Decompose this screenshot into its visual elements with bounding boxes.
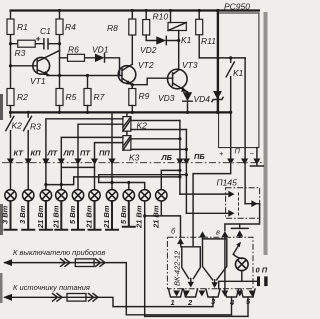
svg-text:R5: R5 (66, 92, 77, 102)
svg-text:ПП: ПП (99, 149, 110, 158)
wire K3 right lower to PB (131, 148, 187, 150)
svg-text:R3: R3 (15, 48, 26, 58)
pin b arrow (177, 238, 184, 244)
VK box dash-dot (167, 237, 253, 288)
scan edge artifacts left (0, 94, 3, 120)
svg-text:ЛП: ЛП (63, 149, 75, 158)
svg-text:−: − (250, 149, 255, 158)
svg-text:21 Вт: 21 Вт (36, 205, 45, 229)
mid bus wire (11, 111, 231, 113)
resistor R11 (198, 11, 200, 20)
lamps 1-10 (5, 190, 167, 201)
P145 link dashed (238, 193, 240, 216)
node R3 junction (9, 42, 12, 45)
wire R3-C1 chain (11, 43, 44, 45)
diode VD3 (187, 92, 189, 93)
scan edge artifacts right (264, 12, 268, 255)
lamp power labels (1, 205, 161, 229)
wire K3 left lower to PT column (95, 143, 123, 190)
svg-text:+: + (219, 149, 224, 158)
svg-text:21 Вт: 21 Вт (85, 205, 94, 229)
svg-text:5 Вт: 5 Вт (119, 205, 128, 224)
svg-text:П: П (235, 147, 241, 156)
node R8 top (131, 9, 134, 12)
pilot lamp (236, 258, 249, 271)
diode VD1 (95, 54, 105, 62)
wire PP column (111, 112, 113, 189)
svg-text:R8: R8 (107, 23, 118, 33)
svg-text:КП: КП (31, 149, 42, 158)
wire K3 left to LP column (61, 137, 123, 189)
wire output rail y58 (199, 57, 245, 59)
svg-text:ВК-422-12: ВК-422-12 (173, 250, 182, 286)
svg-text:0 П: 0 П (256, 266, 268, 275)
switch funnel 2 (203, 239, 227, 280)
node C1-R4 (58, 42, 61, 45)
wire LB column down (179, 121, 181, 195)
svg-text:ПТ: ПТ (80, 149, 91, 158)
svg-text:VT2: VT2 (138, 60, 154, 70)
wire LB feed left (45, 177, 180, 185)
lead 1 wire (5, 263, 232, 315)
svg-text:1: 1 (171, 298, 175, 307)
svg-text:VD3: VD3 (158, 93, 175, 103)
svg-text:R9: R9 (139, 91, 150, 101)
svg-text:КТ: КТ (14, 149, 25, 158)
wire left column (10, 11, 12, 113)
svg-text:21 Вт: 21 Вт (151, 205, 160, 229)
wire K2 right lower to PB (131, 129, 187, 131)
svg-text:K1: K1 (233, 68, 244, 78)
resistor R2 (7, 89, 14, 106)
lamp9 rail to terminal 5 (145, 297, 248, 316)
terminal numbers (171, 297, 252, 307)
fuse 2 (67, 294, 86, 302)
relay K2 coil box (126, 112, 128, 116)
svg-text:C1: C1 (40, 26, 51, 36)
svg-text:5 Вт: 5 Вт (68, 205, 77, 224)
svg-text:в: в (216, 228, 220, 237)
wire pin v column (224, 237, 226, 289)
svg-text:R4: R4 (65, 22, 76, 32)
svg-text:21 Вт: 21 Вт (51, 205, 60, 229)
pin contact arrow (199, 231, 206, 237)
node right feed top (216, 9, 219, 12)
wire R4 column (59, 11, 61, 89)
svg-text:K2: K2 (12, 121, 23, 131)
svg-text:R2: R2 (17, 92, 28, 102)
node K1 coil top (169, 9, 172, 12)
transistor VT2 (118, 66, 136, 84)
resistor R4 (56, 19, 63, 35)
svg-text:VD2: VD2 (140, 45, 157, 55)
relay coil K1 (168, 23, 186, 31)
svg-text:VD4: VD4 (194, 94, 211, 104)
node R11 top (198, 9, 201, 12)
svg-text:VT1: VT1 (30, 76, 46, 86)
node VT2 emitter (131, 83, 134, 86)
svg-text:П145: П145 (217, 178, 238, 188)
wire K3 right to LB (131, 138, 180, 140)
P145 dash-dot box (226, 188, 260, 219)
P145 right contact (245, 203, 260, 205)
svg-text:K1: K1 (181, 35, 192, 45)
node R10 top (145, 9, 148, 12)
svg-text:R11: R11 (201, 36, 216, 46)
resistor R8 (129, 19, 136, 35)
wire VT2 emitter to VT3 base (132, 78, 172, 85)
transistor VT1 (33, 57, 50, 74)
lead 2 wire (5, 297, 213, 307)
contact K1 (226, 58, 234, 159)
svg-text:R10: R10 (153, 12, 169, 22)
lamp9 long wire to terminal 5 rail (144, 201, 146, 316)
wire to position connector (219, 281, 257, 289)
svg-text:R3: R3 (30, 122, 41, 132)
switch lever (233, 243, 242, 258)
resistor R9 (131, 85, 133, 89)
P145 ground pin (225, 204, 260, 231)
svg-text:K3: K3 (129, 153, 140, 163)
svg-text:3 Вт: 3 Вт (18, 205, 27, 224)
resistor R10 (145, 11, 147, 20)
lamp bottom grounds 1-8 (5, 201, 135, 230)
wire K2 left to LT column (46, 119, 123, 190)
wire PB column down (185, 130, 187, 214)
svg-text:21 Вт: 21 Вт (102, 205, 111, 229)
wire VT1 emitter rail to VT2 base (47, 75, 122, 77)
svg-text:ПБ: ПБ (194, 152, 205, 161)
minus ground (250, 148, 263, 166)
wire + output (193, 165, 231, 247)
svg-text:ЛБ: ЛБ (161, 153, 173, 162)
svg-text:VT3: VT3 (182, 60, 198, 70)
PC950 housing box (219, 13, 259, 148)
chassis dash-dot line (2, 162, 262, 164)
svg-text:К источнику питания: К источнику питания (13, 283, 90, 292)
wire lamp10 feed (161, 170, 180, 189)
P145 left contacts (180, 193, 229, 195)
right vertical feed (217, 11, 219, 113)
contact K2 (left) (6, 112, 14, 189)
wire PB feed left (99, 175, 187, 190)
lamp10 wire to switch (145, 201, 181, 237)
resistor R3 (18, 40, 36, 47)
contact P3 (24, 112, 32, 189)
node R4 top (58, 9, 61, 12)
wire LP-PT link (61, 166, 94, 168)
wire K2 right to LB (131, 120, 180, 122)
connector arrows on terminals (7, 159, 261, 165)
wire K2 left lower to lamp5 (78, 124, 123, 190)
svg-text:+: + (36, 34, 41, 44)
transistor VT3 (168, 69, 188, 89)
fuse 1 (75, 259, 94, 267)
wire VT3 collector column (178, 41, 180, 71)
resistor R5 (56, 89, 63, 106)
svg-text:R1: R1 (17, 22, 28, 32)
resistor R1 (7, 19, 14, 35)
svg-text:ЛТ: ЛТ (47, 149, 59, 158)
relay K3 coil box (126, 131, 128, 135)
resistor R7 (87, 76, 89, 89)
top + bus wire (11, 9, 259, 11)
lead 1 connectors (61, 259, 71, 267)
switch funnel 1 (181, 242, 201, 279)
svg-text:2: 2 (187, 298, 193, 307)
svg-text:21 Вт: 21 Вт (135, 205, 144, 229)
zener VD4 (213, 91, 222, 100)
wire P output (244, 58, 246, 204)
svg-text:3 Вт: 3 Вт (1, 205, 10, 224)
bottom contact arrows (173, 291, 255, 297)
terminal bumps 1-5 (169, 289, 256, 297)
diode VD2 (156, 36, 166, 44)
ground bar pin (239, 224, 241, 227)
lead 2 connectors (53, 294, 63, 302)
svg-text:VD1: VD1 (92, 45, 109, 55)
resistor R6 (60, 57, 96, 59)
svg-text:R6: R6 (68, 45, 79, 55)
svg-text:R7: R7 (94, 92, 105, 102)
capacitor C1 (44, 39, 60, 49)
svg-text:К выключателю приборов: К выключателю приборов (13, 248, 105, 257)
